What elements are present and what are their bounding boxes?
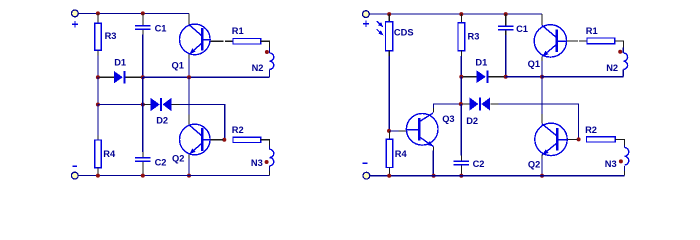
label R2 (right) (585, 125, 597, 135)
wire N3 bottom to rail (right) (624, 166, 626, 176)
wire C column D1 to D2 row (142, 77, 144, 104)
wire R2 to N3 top (right) (615, 139, 624, 147)
capacitor C1 (left) (135, 13, 151, 34)
wire Q3 emitter down (432, 146, 434, 175)
resistor R4 (left) (95, 135, 101, 175)
wire top rail (left) (78, 12, 189, 14)
label C1 (right) (516, 24, 528, 34)
node bottom rail / R4 (96, 174, 100, 178)
node N3 phase dot (right) (619, 159, 623, 163)
node N2 phase dot (265, 50, 269, 54)
node C column at D1 row (141, 75, 145, 79)
inductor N2 (right) (623, 53, 627, 70)
capacitor C1 (right) (498, 14, 514, 35)
inductor N2 (left) (270, 53, 274, 70)
wire R3 column D1 to D2 row (right) (460, 77, 462, 104)
wire R column D2 row to R4 (97, 105, 99, 136)
CDS light arrow 1 (377, 21, 384, 27)
label D2 (left) (156, 116, 168, 126)
label - (right) (363, 162, 368, 164)
wire Q2 emitter down (right) (541, 154, 543, 175)
inductor N3 (left) (270, 149, 274, 166)
node C2 / bottom rail (right) (459, 174, 463, 178)
label + (right) (363, 21, 369, 27)
label R1 (right) (586, 26, 598, 36)
wire N2 bottom to D1 row (right) (542, 69, 623, 76)
wire Q1 base to R1 (210, 40, 233, 42)
wire D2 row left (98, 104, 143, 106)
resistor R1 (right) (587, 38, 615, 44)
wire collector lead Q1 (left) (188, 13, 190, 24)
svg-text:CDS: CDS (394, 27, 414, 37)
node Q1 emitter / D1 row (right) (540, 75, 544, 79)
svg-text:D1: D1 (114, 57, 126, 67)
wire R3 bottom to D1 row (97, 56, 99, 78)
wire Q1 emitter down (188, 54, 190, 77)
label Q1 (right) (528, 59, 540, 69)
diode D2 (left) (144, 98, 179, 111)
node Q2 emitter / bottom rail (right) (540, 174, 544, 178)
label Q3 (442, 114, 454, 124)
label Q2 (left) (172, 154, 184, 164)
label Q1 (left) (172, 61, 184, 71)
wire R2 to N3 top (261, 140, 270, 150)
capacitor C2 (left) (135, 152, 151, 176)
wire N3 bottom to rail (269, 166, 271, 176)
node Q3 emitter / bottom rail (432, 174, 436, 178)
CDS light arrow 2 (377, 29, 384, 35)
label C2 (left) (155, 158, 167, 168)
photoresistor CDS (386, 14, 393, 56)
node top rail / CDS (387, 12, 391, 16)
diode D1 (left) (100, 71, 142, 84)
node D2 row junction (right) (459, 102, 463, 106)
node R3 column at D1 row (right) (459, 75, 463, 79)
label R1 (left) (232, 26, 244, 36)
svg-text:Q2: Q2 (528, 159, 540, 169)
label Q2 (right) (528, 159, 540, 169)
node R3/D1/R4 column at D1 row (96, 75, 100, 79)
node top rail / C1 (left) (141, 11, 145, 15)
wire Q3 collector elbow (434, 104, 461, 113)
label N3 (right) (605, 159, 617, 169)
label D1 (left) (114, 57, 126, 67)
wire R3 bottom to D1 row (right) (460, 56, 462, 77)
svg-text:D1: D1 (475, 57, 487, 67)
wire bottom rail (left) (78, 175, 269, 177)
svg-text:Q1: Q1 (528, 59, 540, 69)
diode D1 (right) (463, 70, 504, 83)
wire C1 bottom to D1 row (right) (505, 35, 507, 77)
label N3 (left) (251, 158, 263, 168)
terminal + (right) (363, 11, 370, 18)
svg-text:R4: R4 (395, 149, 408, 159)
resistor R1 (left) (233, 39, 261, 44)
label C2 (right) (473, 159, 485, 169)
wire R1 to N2 top (261, 41, 270, 53)
terminal - (left) (71, 172, 78, 179)
wire top rail (right) (369, 13, 542, 15)
diode D2 (right) (462, 97, 498, 110)
svg-text:R2: R2 (232, 125, 244, 135)
wire Q2 base to junction (210, 139, 223, 141)
resistor R4 (right) (386, 131, 393, 176)
wire Q2 collector column (right) (541, 77, 543, 124)
label CDS (394, 27, 414, 37)
svg-text:Q3: Q3 (442, 114, 454, 124)
wire C column D2 row to C2 (142, 105, 144, 153)
transistor Q1 (left) (180, 24, 211, 55)
label N2 (right) (606, 63, 618, 73)
resistor R2 (right) (587, 137, 616, 142)
node Q1 emitter / D1 row (187, 75, 191, 79)
svg-text:D2: D2 (466, 116, 478, 126)
node top rail / C1 (right) (504, 12, 508, 16)
node R column at D2 row (96, 103, 100, 107)
svg-text:R2: R2 (585, 125, 597, 135)
wire Q1 emitter down (right) (541, 57, 543, 77)
transistor Q1 (right) (534, 25, 566, 57)
label D1 (right) (475, 57, 487, 67)
resistor R3 (left) (95, 13, 101, 55)
svg-text:N3: N3 (605, 159, 617, 169)
label C1 (left) (155, 24, 167, 34)
svg-text:R1: R1 (232, 26, 244, 36)
wire C1 bottom to D1 row (142, 35, 144, 78)
svg-text:R3: R3 (105, 31, 117, 41)
svg-text:N2: N2 (252, 63, 264, 73)
label - (left) (72, 165, 77, 167)
node R2 left junction (222, 138, 226, 142)
wire base node to Q3 (390, 130, 407, 132)
node top rail / R3 (left) (96, 11, 100, 15)
wire collector lead Q1 (right) (541, 14, 543, 25)
terminal - (right) (363, 172, 370, 179)
wire Q2 emitter down (188, 154, 190, 175)
label D2 (right) (466, 116, 478, 126)
wire D1 row to Q1 emitter (right) (506, 76, 542, 78)
node R2 left junction (right) (577, 137, 581, 141)
wire R3 column D2 row to C2 (right) (460, 104, 462, 156)
svg-text:Q2: Q2 (172, 154, 184, 164)
svg-text:C1: C1 (516, 24, 528, 34)
capacitor C2 (right) (454, 156, 470, 176)
svg-text:N2: N2 (606, 63, 618, 73)
wire Q2 base to junction (right) (567, 138, 577, 140)
svg-text:D2: D2 (156, 116, 168, 126)
label R4 (left) (103, 149, 116, 159)
label R2 (left) (232, 125, 244, 135)
svg-text:Q1: Q1 (172, 61, 184, 71)
node N2 phase dot (right) (618, 50, 622, 54)
transistor Q2 (left) (180, 124, 211, 155)
wire D2 to R2 drop (180, 105, 225, 140)
terminal + (left) (72, 10, 79, 17)
svg-text:R4: R4 (103, 149, 116, 159)
wire CDS to Q3 base node (388, 56, 390, 131)
wire N2 bottom to emitter row (143, 69, 270, 77)
wire R column D1 row to D2 row (97, 77, 99, 104)
node top rail / R3 (right) (459, 12, 463, 16)
svg-text:N3: N3 (251, 158, 263, 168)
label R3 (left) (105, 31, 117, 41)
wire Q2 collector column (188, 77, 190, 124)
transistor Q2 (right) (535, 123, 567, 155)
wire Q1 base to R1 (right) (567, 40, 587, 42)
label + (left) (72, 21, 78, 27)
resistor R3 (right) (458, 14, 465, 56)
svg-text:C1: C1 (155, 24, 167, 34)
wire bottom rail (right) (370, 175, 625, 177)
inductor N3 (right) (625, 148, 629, 166)
svg-text:R3: R3 (468, 32, 480, 42)
node bottom rail / C2 (141, 174, 145, 178)
label R4 (right) (395, 149, 408, 159)
svg-text:C2: C2 (155, 158, 167, 168)
transistor Q3 (406, 113, 438, 146)
node N3 phase dot (265, 160, 269, 164)
node C1 column at D1 row (right) (504, 75, 508, 79)
svg-text:R1: R1 (586, 26, 598, 36)
resistor R2 (left) (233, 137, 261, 142)
svg-text:C2: C2 (473, 159, 485, 169)
wire R1 to N2 top (right) (615, 41, 624, 53)
node Q2 emitter / bottom rail (187, 174, 191, 178)
node Q3 base junction (387, 129, 391, 133)
label R3 (right) (468, 32, 480, 42)
node C column at D2 row (141, 103, 145, 107)
node bottom rail / R4 (right) (387, 174, 391, 178)
wire D2 to R2 drop (right) (498, 104, 578, 139)
label N2 (left) (252, 63, 264, 73)
